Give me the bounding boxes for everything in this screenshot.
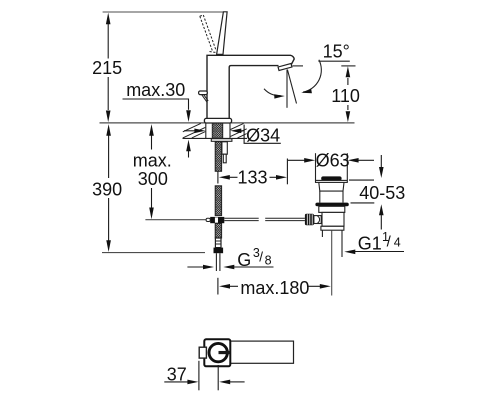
mounting stud (222, 142, 227, 154)
dim G3/8 right arrow (223, 265, 234, 270)
svg-text:390: 390 (92, 180, 122, 200)
dim 390 top arrow (106, 124, 111, 136)
dim 133 right arrow (270, 176, 278, 178)
pop-up rod left segment (224, 218, 305, 220)
side tab strut (202, 95, 208, 103)
svg-text:G: G (237, 250, 251, 270)
15 degree reference line (318, 60, 349, 62)
dim Ø63 left arrow (288, 159, 305, 161)
max.30 up arrow below counter (186, 140, 191, 152)
dim 40-53 top terminus line (349, 179, 374, 181)
G1 1/4 leader arrow (344, 250, 355, 255)
dim 215 top arrow (106, 13, 111, 25)
svg-text:G1: G1 (358, 233, 382, 253)
dim max300 top arrow (149, 124, 154, 136)
dim max.180 right arrow (309, 285, 321, 287)
flex hose upper segment (215, 142, 221, 172)
dim 133 left arrow (219, 175, 230, 180)
top reference line (lever max height) (103, 11, 227, 13)
svg-text:40-53: 40-53 (359, 183, 405, 203)
max.30 underline leader (123, 99, 189, 110)
drain flange taper (319, 182, 344, 191)
dim 133 right tick (spout outlet line) (286, 159, 288, 185)
water stream vertical line (286, 70, 288, 108)
line from aerator to right (293, 65, 304, 67)
dim max300 bottom terminus line (145, 219, 206, 221)
counter hatching left (183, 123, 206, 137)
dim 110 top tick (341, 65, 355, 67)
svg-text:8: 8 (265, 253, 272, 267)
drain flange top (316, 180, 348, 182)
pop-up rod clamp on hose (210, 217, 224, 223)
dim 37 left arrow (164, 381, 188, 383)
svg-text:max.30: max.30 (126, 80, 185, 100)
lever solid (tilted right) (217, 12, 228, 55)
countertop top surface line (100, 122, 355, 124)
dim 37 right arrow (219, 380, 230, 385)
drain Ø63 left extension line (315, 153, 317, 180)
svg-text:215: 215 (92, 58, 122, 78)
top view pivot ring (209, 343, 227, 361)
drain centerline (331, 230, 333, 295)
svg-text:Ø34: Ø34 (246, 125, 280, 145)
drain body upper (319, 206, 345, 212)
svg-text:133: 133 (238, 168, 268, 188)
Ø34 label bracket (244, 125, 281, 144)
rod end cap at hose (206, 218, 210, 221)
drain knob stem (314, 216, 321, 224)
dim 215 vertical line (107, 24, 109, 110)
dim 37 left tick (198, 361, 200, 391)
angle arc left segment (264, 89, 281, 96)
top view left tab (199, 347, 206, 358)
counter hole left edge (205, 123, 207, 138)
svg-text:300: 300 (138, 169, 168, 189)
svg-text:15°: 15° (323, 42, 350, 62)
svg-text:/: / (259, 250, 263, 265)
svg-text:max.: max. (133, 151, 172, 171)
dim 110 upper arrow (346, 66, 351, 77)
svg-text:110: 110 (331, 86, 360, 106)
drain Ø63 right extension line (346, 153, 348, 180)
counter hole right edge (229, 123, 231, 138)
dim 110 lower arrow (347, 105, 349, 110)
dim G3/8 left arrow (187, 266, 204, 268)
dim Ø34 left arrow (184, 130, 195, 132)
faucet base plate (204, 118, 231, 123)
side tab on body (199, 91, 208, 95)
drain neck (320, 191, 343, 203)
dim max300 bottom arrow (149, 208, 154, 220)
dim 40-53 bottom arrow (379, 204, 384, 215)
dim Ø34 right arrow (230, 129, 241, 134)
drain body lower (322, 212, 344, 226)
dim 390 vertical line (108, 136, 110, 241)
drain side knob (305, 214, 314, 226)
dim max.180 left tick (217, 278, 219, 295)
dim max.180 left arrow (219, 284, 230, 289)
dim max300 vertical line (151, 135, 153, 207)
drain tailpipe right wall (341, 230, 343, 257)
dim 390 bottom arrow (106, 240, 111, 252)
lever dashed (tilted left) (200, 15, 216, 53)
G3/8 nut (214, 248, 224, 254)
top view lever rectangle (205, 341, 293, 363)
faucet body outline (207, 55, 294, 118)
drain o-ring seal (315, 203, 348, 207)
countertop bottom line (183, 137, 248, 139)
flex hose middle segment (215, 186, 221, 216)
counter hatching right (231, 123, 247, 137)
dim 40-53 top arrow (380, 155, 382, 168)
svg-text:max.180: max.180 (240, 278, 309, 298)
spout aerator tip (278, 64, 292, 71)
hose crimp fitting (215, 238, 221, 248)
drain bottom flange (321, 226, 344, 230)
angle arc left arrowhead (274, 94, 285, 98)
angle arc right segment (303, 60, 321, 92)
drain tailpipe left wall (321, 230, 323, 237)
angle arc right arrowhead (301, 89, 312, 93)
threaded shank through counter (212, 123, 222, 138)
svg-text:4: 4 (394, 236, 401, 250)
water stream tilted line (287, 70, 296, 104)
drain plug cap (321, 176, 341, 180)
top view pivot bar (219, 351, 231, 354)
mounting washer (211, 139, 232, 142)
top view body square (204, 339, 230, 366)
dim 133 left tick (217, 172, 219, 184)
dim 390 bottom terminus line (102, 252, 205, 254)
dim 40-53 bottom terminus line (351, 202, 375, 204)
dim 215 bottom arrow (106, 111, 111, 123)
dim 37 right tick (217, 365, 219, 390)
supply tube below nut (216, 253, 220, 271)
flex hose lower segment (215, 223, 221, 238)
svg-text:Ø63: Ø63 (316, 150, 350, 170)
dim Ø63 right arrow (348, 158, 359, 163)
max.30 down arrow (186, 110, 191, 122)
